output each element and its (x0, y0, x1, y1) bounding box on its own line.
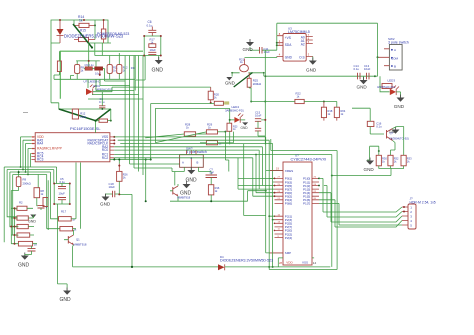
svg-text:LED3: LED3 (388, 79, 396, 83)
resistor R30 (376, 155, 387, 166)
svg-text:14: 14 (313, 261, 317, 265)
svg-text:C9 0.1u: C9 0.1u (85, 63, 95, 67)
wire riser1 (151, 104, 215, 160)
resistor R29 (206, 123, 225, 135)
svg-text:LED2: LED2 (93, 84, 100, 88)
wire (232, 73, 264, 77)
wire (93, 91, 112, 93)
ground (389, 127, 400, 135)
capacitor C16 (367, 121, 382, 128)
svg-text:VSS: VSS (302, 261, 308, 265)
ground (243, 39, 255, 52)
svg-text:10uF: 10uF (264, 50, 271, 54)
ground (100, 194, 111, 207)
decorative dash (23, 112, 28, 114)
resistor R8 (34, 188, 44, 206)
resistor R14 (74, 15, 95, 28)
svg-text:RC0: RC0 (102, 148, 109, 152)
wire (100, 79, 130, 85)
IC U4 CY8C27443 (270, 154, 326, 265)
svg-text:DIODEZENER3.3V50MW5D-523: DIODEZENER3.3V50MW5D-523 (220, 259, 273, 263)
wire (71, 56, 136, 80)
capacitor C4 (99, 92, 105, 109)
resistor R22 (295, 92, 304, 104)
resistor R23 (227, 123, 238, 131)
wire (244, 144, 266, 216)
IC U3 (277, 32, 313, 61)
svg-text:5pF: 5pF (210, 170, 215, 174)
wire (251, 102, 337, 108)
wire (87, 79, 89, 88)
switch SW2 (378, 37, 409, 70)
wire (76, 53, 119, 67)
svg-text:200kΩ: 200kΩ (23, 181, 31, 185)
ground (18, 253, 32, 269)
LED LED3 (377, 76, 399, 95)
wire (391, 127, 404, 156)
svg-text:A: A (182, 161, 184, 165)
svg-text:3 pole switch: 3 pole switch (388, 41, 409, 45)
resistor R7 (11, 241, 37, 246)
wire (175, 167, 211, 185)
svg-text:GND: GND (394, 104, 405, 109)
wire (112, 87, 211, 92)
wire diagonal (155, 132, 206, 143)
wire (319, 178, 402, 212)
svg-text:GND: GND (285, 56, 293, 60)
capacitor C13 (148, 48, 156, 55)
wire (377, 57, 379, 76)
wire (262, 36, 277, 51)
wire PIC left bus wrap (21, 137, 32, 175)
resistor R31 (200, 141, 233, 146)
wire (370, 146, 379, 160)
capacitor C10 (95, 67, 103, 76)
resistor R16 (208, 185, 220, 202)
svg-text:GND: GND (306, 68, 317, 73)
svg-text:GND: GND (100, 202, 111, 207)
resistor R32 (388, 155, 399, 166)
resistor R26a (96, 109, 111, 133)
resistor R27 (214, 101, 224, 105)
wire (118, 140, 270, 178)
svg-text:B: B (197, 161, 199, 165)
resistor R9 (75, 65, 85, 74)
resistor R17 (149, 38, 156, 48)
svg-text:RC2: RC2 (102, 156, 109, 160)
wire (130, 164, 180, 172)
resistor R12 (117, 65, 128, 74)
resistor R15 (74, 25, 95, 41)
wire frame net (60, 51, 143, 99)
resistor R33 (401, 155, 412, 166)
wire diagonal arrow (234, 73, 253, 88)
svg-text:CY8C27443-24PVXI: CY8C27443-24PVXI (291, 157, 327, 162)
wire (269, 151, 337, 270)
svg-text:2N3904(TO-92): 2N3904(TO-92) (389, 137, 409, 141)
wire (324, 118, 337, 121)
wire (144, 56, 146, 81)
svg-text:RC3: RC3 (37, 158, 44, 162)
IC U4 SMP + VDD (269, 251, 316, 265)
wire (120, 144, 272, 183)
resistor R24 (334, 107, 346, 117)
switch SW1 (180, 147, 207, 168)
capacitor C12 (364, 64, 371, 79)
IC U1 PIC16F1503 (31, 126, 114, 162)
svg-text:R2: R2 (19, 201, 23, 205)
capacitor C15 (255, 110, 266, 136)
wire feed (51, 43, 59, 109)
ground (60, 288, 72, 304)
wire (266, 171, 283, 183)
IC U4 right pins P1 (303, 177, 320, 206)
capacitor C17 (206, 168, 218, 185)
wire (114, 155, 331, 193)
wire far-left wrap (4, 167, 56, 242)
capacitor C3 (58, 192, 66, 200)
diode D4 (218, 255, 273, 270)
capacitor C14 (354, 64, 361, 79)
wire (319, 203, 402, 225)
wire (324, 186, 402, 218)
wire (331, 155, 333, 267)
svg-text:U? LM358-D: U? LM358-D (84, 80, 102, 84)
wire (58, 204, 68, 291)
resistor Rv (43, 198, 48, 207)
svg-text:GND: GND (241, 126, 249, 130)
svg-text:R17: R17 (61, 210, 67, 214)
wire riser2 (155, 108, 229, 142)
diode D1 (57, 20, 64, 43)
svg-text:SDA: SDA (285, 43, 292, 47)
svg-text:MMBT918: MMBT918 (74, 243, 87, 247)
resistor R15b (55, 227, 77, 232)
ground (306, 56, 317, 72)
svg-text:10uF: 10uF (255, 113, 262, 117)
wire (145, 160, 147, 202)
capacitor C9 (85, 63, 95, 70)
wire (278, 258, 314, 267)
svg-text:GND: GND (389, 130, 397, 134)
svg-text:P1[7]: P1[7] (303, 202, 310, 206)
IC U4 left pins P2 (275, 215, 293, 240)
svg-text:+VS: +VS (285, 36, 291, 40)
wire (51, 20, 111, 43)
wire (114, 147, 274, 186)
transistor Q1 (64, 230, 87, 267)
wire (96, 79, 134, 90)
svg-text:3APBSHC-F01: 3APBSHC-F01 (225, 108, 244, 112)
wire (144, 36, 161, 56)
capacitor C5 (58, 177, 66, 189)
svg-text:Q1: Q1 (76, 238, 80, 242)
wire (332, 166, 404, 176)
svg-text:VDD: VDD (286, 261, 293, 265)
wire (230, 120, 235, 144)
svg-text:GND: GND (225, 81, 235, 86)
svg-text:XRES: XRES (285, 169, 293, 173)
wire PIC right connections (110, 158, 151, 164)
wire (119, 194, 132, 267)
wire (89, 43, 145, 61)
resistor R25 (247, 73, 262, 102)
svg-text:SMP: SMP (285, 251, 291, 255)
svg-text:0.1u: 0.1u (376, 125, 382, 129)
svg-text:RA3/MCLR/VPP: RA3/MCLR/VPP (37, 147, 63, 151)
wire (11, 180, 48, 244)
svg-text:3AP8SHC-F01: 3AP8SHC-F01 (95, 88, 113, 92)
resistor R4 (101, 20, 105, 43)
svg-text:A: A (394, 48, 396, 52)
transistor Q2 (170, 184, 191, 201)
wire bus verticals (125, 56, 143, 176)
ground VGND (28, 215, 36, 224)
wire (272, 220, 274, 267)
wire (92, 94, 139, 96)
svg-text:RA4: RA4 (37, 142, 43, 146)
resistor R11 (107, 65, 118, 74)
svg-text:GND: GND (60, 297, 72, 303)
wire diagonal (145, 134, 184, 138)
wire (54, 184, 70, 205)
potentiometer R13 200k (72, 109, 87, 119)
connector J1 (402, 197, 436, 230)
wire (76, 163, 81, 229)
resistor R2 (11, 201, 33, 212)
capacitor C11 (250, 47, 270, 54)
wire (265, 50, 377, 144)
wire (319, 200, 402, 227)
wire (319, 193, 402, 222)
svg-text:O.S: O.S (299, 56, 305, 60)
wire (105, 79, 126, 81)
resistor R6 (11, 224, 34, 228)
junction (59, 19, 61, 21)
ground (240, 120, 248, 130)
svg-text:10uF: 10uF (364, 67, 371, 71)
capacitor C18 (108, 181, 119, 197)
wire pot triangle arms (59, 109, 111, 121)
svg-text:GND: GND (243, 47, 254, 52)
svg-text:R15: R15 (80, 29, 86, 33)
wire (73, 266, 331, 268)
transistor Q3 (387, 129, 409, 141)
wire (114, 150, 274, 189)
svg-text:POWERSO8-M2-523: POWERSO8-M2-523 (97, 32, 129, 36)
svg-text:0.1u: 0.1u (147, 24, 153, 28)
svg-text:GND: GND (18, 263, 30, 269)
resistor R20 (208, 87, 219, 104)
wire (114, 137, 265, 171)
svg-text:A2: A2 (301, 43, 305, 47)
IC U3 labels (288, 27, 310, 35)
wire (88, 98, 143, 100)
capacitor C1 (28, 246, 36, 255)
inductor L1 (54, 51, 71, 79)
svg-text:B: B (394, 65, 396, 69)
resistor R5 (11, 215, 33, 221)
resistor R17b (59, 210, 77, 222)
LED LED2 (86, 84, 113, 95)
svg-text:MMBT918: MMBT918 (177, 196, 190, 200)
resistor R3 200k (11, 171, 38, 191)
svg-text:10uF: 10uF (150, 48, 157, 52)
wire (114, 158, 274, 196)
resistor R28 (184, 123, 206, 137)
resistor R18 (321, 102, 332, 118)
LED LED4 (225, 105, 244, 123)
ground (225, 77, 235, 86)
ground (357, 76, 368, 89)
svg-text:200k: 200k (80, 115, 87, 119)
wire (352, 108, 384, 134)
svg-text:200kΩ: 200kΩ (253, 82, 262, 86)
ground (180, 181, 192, 197)
capacitor C6 (147, 20, 157, 36)
svg-text:GND: GND (152, 68, 164, 74)
capacitor C2 (37, 205, 48, 210)
wire (225, 132, 233, 172)
ground (364, 158, 375, 173)
svg-text:10uF: 10uF (59, 192, 66, 196)
ground (152, 56, 164, 74)
wire P2 bus (266, 171, 283, 253)
svg-text:PIC16F1503E-SL: PIC16F1503E-SL (70, 126, 101, 131)
resistor R19 (117, 164, 129, 182)
ground (394, 92, 405, 109)
svg-text:P2[4]: P2[4] (285, 236, 292, 240)
wire (277, 23, 378, 57)
svg-text:0.1u: 0.1u (354, 67, 360, 71)
svg-text:10uF: 10uF (109, 185, 116, 189)
thermistor R21 (239, 56, 277, 71)
svg-text:GND: GND (357, 84, 368, 89)
wire diagonal (73, 24, 92, 48)
svg-text:GND: GND (186, 178, 198, 184)
wire left extensions (238, 158, 275, 189)
wire (170, 191, 266, 202)
ground (186, 167, 198, 184)
svg-text:1k: 1k (79, 19, 83, 23)
net label (224, 101, 229, 104)
IC U4 left pins P0 (274, 177, 293, 206)
wire (135, 80, 145, 91)
svg-text:GND: GND (28, 220, 36, 224)
svg-text:P0[6]: P0[6] (285, 202, 292, 206)
svg-text:GND: GND (364, 167, 375, 172)
resistor R1 (11, 233, 34, 237)
wire pot triangle top (59, 108, 111, 110)
